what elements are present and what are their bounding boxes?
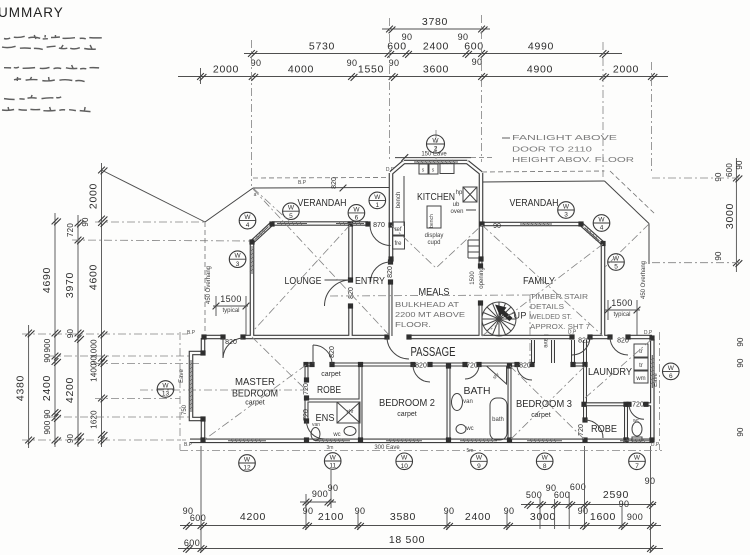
- svg-text:wc: wc: [633, 418, 640, 424]
- svg-text:1500: 1500: [220, 294, 242, 304]
- svg-text:opening: opening: [479, 267, 485, 288]
- svg-text:90: 90: [645, 476, 656, 486]
- svg-text:BULKHEAD AT: BULKHEAD AT: [395, 300, 460, 309]
- svg-text:90: 90: [389, 58, 400, 68]
- svg-text:W: W: [353, 206, 360, 213]
- svg-text:90: 90: [493, 223, 501, 230]
- svg-text:W: W: [432, 137, 439, 144]
- svg-text:3000: 3000: [724, 203, 736, 229]
- svg-text:W: W: [374, 194, 381, 201]
- svg-text:van: van: [312, 422, 320, 428]
- svg-text:3970: 3970: [64, 272, 76, 298]
- svg-text:carpet: carpet: [245, 400, 265, 407]
- svg-text:820: 820: [519, 363, 531, 370]
- svg-text:1400: 1400: [90, 363, 99, 382]
- svg-text:1500: 1500: [470, 271, 476, 285]
- svg-text:3780: 3780: [422, 16, 448, 28]
- svg-text:D.P: D.P: [651, 442, 660, 448]
- svg-text:90: 90: [714, 251, 723, 261]
- svg-text:4: 4: [600, 225, 604, 232]
- svg-text:450 Overhang: 450 Overhang: [206, 266, 212, 304]
- svg-text:720: 720: [632, 402, 644, 409]
- svg-text:ub: ub: [453, 202, 460, 208]
- svg-text:90: 90: [347, 58, 358, 68]
- svg-text:typical: typical: [222, 308, 239, 314]
- svg-text:D.P: D.P: [644, 330, 653, 336]
- svg-text:3: 3: [564, 212, 568, 219]
- svg-text:90: 90: [736, 337, 745, 347]
- svg-text:4600: 4600: [88, 264, 100, 290]
- svg-text:fre: fre: [394, 241, 402, 247]
- svg-text:1620: 1620: [90, 410, 99, 429]
- svg-text:90: 90: [251, 58, 262, 68]
- svg-text:820: 820: [387, 266, 394, 278]
- svg-text:4200: 4200: [64, 377, 76, 403]
- svg-text:600: 600: [184, 538, 200, 548]
- svg-text:ref: ref: [394, 227, 401, 233]
- svg-text:600: 600: [554, 490, 570, 500]
- svg-text:FANLIGHT ABOVE: FANLIGHT ABOVE: [512, 133, 617, 142]
- svg-text:4690: 4690: [41, 267, 53, 293]
- svg-text:90: 90: [472, 57, 483, 67]
- svg-text:820: 820: [329, 346, 336, 358]
- svg-text:750: 750: [182, 404, 188, 415]
- svg-text:MEALS: MEALS: [419, 286, 450, 298]
- svg-text:2400: 2400: [41, 375, 53, 401]
- svg-text:5m: 5m: [467, 448, 474, 454]
- svg-text:900: 900: [312, 489, 328, 499]
- svg-text:W: W: [542, 455, 549, 462]
- svg-text:PASSAGE: PASSAGE: [411, 345, 456, 359]
- svg-text:900: 900: [43, 338, 52, 352]
- svg-text:hp: hp: [456, 190, 463, 196]
- svg-text:6: 6: [355, 215, 359, 222]
- svg-text:tr: tr: [639, 349, 643, 355]
- svg-text:bench: bench: [396, 192, 402, 208]
- svg-text:720: 720: [303, 383, 310, 395]
- svg-text:shr: shr: [347, 409, 354, 415]
- svg-text:12: 12: [243, 465, 251, 472]
- svg-text:VERANDAH: VERANDAH: [298, 197, 347, 209]
- svg-text:600: 600: [464, 41, 484, 53]
- svg-text:90: 90: [736, 427, 745, 437]
- svg-text:90: 90: [43, 353, 52, 363]
- svg-text:4: 4: [246, 222, 250, 229]
- svg-text:7: 7: [635, 463, 639, 470]
- svg-text:9: 9: [477, 463, 481, 470]
- svg-text:18 500: 18 500: [389, 534, 425, 546]
- svg-text:W: W: [235, 253, 242, 260]
- svg-text:4200: 4200: [240, 511, 266, 523]
- svg-text:90: 90: [81, 217, 90, 227]
- svg-text:WELDED ST.: WELDED ST.: [530, 312, 572, 321]
- svg-text:APPROX. SHT 7: APPROX. SHT 7: [530, 322, 590, 331]
- svg-text:4990: 4990: [528, 41, 554, 53]
- svg-text:2000: 2000: [213, 64, 239, 76]
- svg-text:Eave: Eave: [179, 369, 185, 383]
- svg-text:FAMILY: FAMILY: [523, 275, 555, 287]
- svg-text:1550: 1550: [358, 64, 384, 76]
- svg-text:720: 720: [66, 223, 75, 237]
- svg-text:5730: 5730: [309, 41, 335, 53]
- svg-text:2100: 2100: [318, 511, 344, 523]
- svg-text:W: W: [563, 203, 570, 210]
- svg-text:450 Overhang: 450 Overhang: [641, 261, 647, 299]
- svg-text:90: 90: [735, 160, 744, 170]
- svg-text:90: 90: [504, 506, 515, 516]
- svg-text:FLOOR.: FLOOR.: [395, 320, 431, 329]
- svg-text:bath: bath: [492, 417, 504, 423]
- svg-text:870: 870: [373, 222, 385, 229]
- svg-text:5: 5: [614, 264, 618, 271]
- svg-text:820: 820: [578, 338, 590, 345]
- svg-text:W: W: [598, 216, 605, 223]
- svg-text:11: 11: [329, 463, 336, 470]
- svg-text:B.P: B.P: [298, 180, 307, 186]
- svg-text:4380: 4380: [15, 375, 27, 401]
- svg-text:HEIGHT ABOV. FLOOR: HEIGHT ABOV. FLOOR: [512, 155, 635, 164]
- svg-text:wc: wc: [465, 426, 473, 432]
- svg-text:720: 720: [466, 363, 478, 370]
- svg-text:90: 90: [328, 483, 339, 493]
- svg-text:600: 600: [570, 482, 586, 492]
- svg-text:2200 MT ABOVE: 2200 MT ABOVE: [395, 310, 465, 319]
- svg-text:ROBE: ROBE: [591, 423, 617, 435]
- svg-text:W: W: [613, 255, 620, 262]
- svg-text:W: W: [162, 382, 169, 389]
- svg-text:BEDROOM 2: BEDROOM 2: [379, 397, 435, 409]
- svg-text:8: 8: [543, 463, 547, 470]
- svg-text:10: 10: [401, 463, 409, 470]
- svg-text:W: W: [401, 455, 408, 462]
- svg-text:3000: 3000: [530, 511, 556, 523]
- svg-text:carpet: carpet: [321, 371, 341, 378]
- svg-text:90: 90: [736, 358, 745, 368]
- svg-text:W: W: [668, 365, 675, 372]
- svg-text:oven: oven: [450, 209, 463, 215]
- svg-text:B.P: B.P: [187, 330, 196, 336]
- svg-text:600: 600: [190, 513, 206, 523]
- svg-text:820: 820: [415, 363, 427, 370]
- svg-text:D.P: D.P: [568, 330, 577, 336]
- svg-text:wc: wc: [332, 432, 340, 438]
- svg-text:1500: 1500: [611, 298, 633, 308]
- svg-text:display: display: [425, 233, 444, 239]
- svg-text:900: 900: [627, 512, 643, 522]
- svg-text:van: van: [463, 399, 473, 405]
- svg-text:3580: 3580: [390, 511, 416, 523]
- svg-text:720: 720: [303, 409, 310, 421]
- svg-text:600: 600: [725, 163, 734, 177]
- svg-text:D.P: D.P: [386, 167, 395, 173]
- svg-text:TIMBER STAIR: TIMBER STAIR: [530, 292, 589, 301]
- svg-text:600: 600: [387, 41, 407, 53]
- svg-text:90: 90: [578, 506, 589, 516]
- svg-text:90: 90: [303, 506, 314, 516]
- svg-text:KITCHEN: KITCHEN: [417, 191, 455, 203]
- svg-text:2400: 2400: [465, 511, 491, 523]
- svg-text:2000: 2000: [88, 183, 100, 209]
- svg-text:tr: tr: [639, 363, 643, 369]
- svg-text:820: 820: [617, 338, 629, 345]
- svg-text:W: W: [330, 454, 337, 461]
- svg-text:90: 90: [66, 329, 75, 339]
- svg-text:ENTRY: ENTRY: [355, 275, 385, 287]
- svg-text:W: W: [288, 205, 295, 212]
- svg-text:BEDROOM: BEDROOM: [232, 388, 278, 400]
- svg-text:3600: 3600: [423, 64, 449, 76]
- svg-text:90: 90: [355, 506, 366, 516]
- svg-text:900: 900: [43, 420, 52, 434]
- svg-text:90: 90: [444, 506, 455, 516]
- svg-text:6: 6: [669, 373, 673, 380]
- svg-text:90: 90: [619, 499, 630, 509]
- svg-text:ROBE: ROBE: [317, 384, 341, 396]
- svg-text:2: 2: [434, 146, 438, 153]
- svg-text:820: 820: [331, 177, 338, 189]
- svg-text:2400: 2400: [423, 41, 449, 53]
- svg-text:B.P: B.P: [184, 442, 193, 448]
- svg-text:wm: wm: [635, 376, 645, 382]
- svg-text:300 Eave: 300 Eave: [374, 445, 400, 451]
- svg-text:4900: 4900: [527, 64, 553, 76]
- svg-text:820: 820: [225, 339, 237, 346]
- svg-text:90: 90: [402, 32, 413, 42]
- svg-text:3: 3: [236, 261, 240, 268]
- svg-text:cupd: cupd: [427, 240, 440, 246]
- svg-text:90: 90: [66, 434, 75, 444]
- svg-text:1: 1: [375, 202, 379, 209]
- svg-text:W: W: [244, 456, 251, 463]
- svg-text:carpet: carpet: [531, 412, 551, 419]
- svg-text:W: W: [244, 214, 251, 221]
- svg-text:1600: 1600: [590, 511, 616, 523]
- svg-text:DETAILS: DETAILS: [530, 302, 564, 311]
- svg-text:BEDROOM 3: BEDROOM 3: [516, 398, 572, 410]
- svg-text:bench: bench: [429, 214, 435, 228]
- svg-text:VERANDAH: VERANDAH: [510, 197, 559, 209]
- svg-text:2000: 2000: [613, 64, 639, 76]
- svg-text:W: W: [634, 455, 641, 462]
- svg-text:UP: UP: [514, 311, 527, 321]
- svg-text:carpet: carpet: [397, 411, 417, 418]
- svg-text:5: 5: [289, 213, 293, 220]
- svg-text:90: 90: [714, 172, 723, 182]
- svg-text:3m: 3m: [327, 445, 334, 451]
- svg-text:4000: 4000: [288, 64, 314, 76]
- svg-text:UMMARY: UMMARY: [0, 5, 64, 20]
- svg-text:1000: 1000: [90, 339, 99, 358]
- svg-text:typical: typical: [613, 312, 630, 318]
- svg-text:MASTER: MASTER: [235, 376, 275, 388]
- svg-text:DOOR TO 2110: DOOR TO 2110: [512, 145, 592, 154]
- svg-text:BATH: BATH: [464, 385, 491, 397]
- svg-text:13: 13: [162, 391, 170, 398]
- svg-text:W: W: [476, 455, 483, 462]
